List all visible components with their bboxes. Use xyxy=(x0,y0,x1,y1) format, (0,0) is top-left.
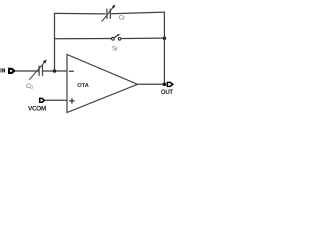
svg-text:OUT: OUT xyxy=(161,89,174,96)
wire top feedback right xyxy=(111,12,165,14)
wire right vertical xyxy=(163,12,165,84)
label Sf xyxy=(112,46,118,53)
label Cf xyxy=(119,14,125,22)
wire OTA output xyxy=(138,83,165,85)
switch Sf xyxy=(112,34,121,40)
svg-text:0: 0 xyxy=(30,85,33,91)
port OUT xyxy=(161,82,174,96)
wire IN to C0 xyxy=(16,70,39,72)
node input junction xyxy=(53,69,57,73)
label C0 xyxy=(26,83,33,91)
node feedback right junction xyxy=(163,36,167,40)
capacitor C0 (variable) xyxy=(29,60,47,80)
wire switch branch left xyxy=(55,38,112,40)
node output xyxy=(163,83,167,87)
wire VCOM to OTA + xyxy=(45,99,67,101)
port IN xyxy=(1,68,15,73)
wire junction up to feedback xyxy=(54,13,56,71)
wire switch to right vertical xyxy=(121,37,164,39)
wire top feedback left xyxy=(54,12,106,15)
wire C0 to OTA inverting input xyxy=(43,70,67,72)
capacitor Cf (variable) xyxy=(102,5,116,22)
svg-text:VCOM: VCOM xyxy=(28,105,46,112)
op-amp U1 OTA xyxy=(67,55,138,113)
port VCOM xyxy=(28,98,46,112)
svg-text:OTA: OTA xyxy=(77,83,89,89)
